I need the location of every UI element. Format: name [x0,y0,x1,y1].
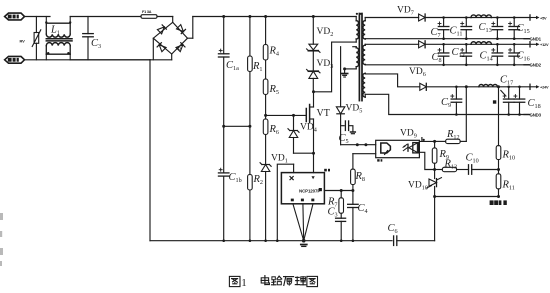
svg-text:VD9: VD9 [400,129,417,140]
svg-text:C4: C4 [358,203,368,215]
svg-text:VD4: VD4 [300,123,317,134]
svg-text:C8: C8 [432,52,442,64]
svg-text:VD10: VD10 [408,181,428,192]
svg-text:GND1: GND1 [530,37,542,42]
svg-text:R5: R5 [269,84,280,96]
svg-text:VD2: VD2 [317,27,334,38]
svg-text:C6: C6 [388,223,398,235]
svg-text:1: 1 [241,277,247,289]
svg-text:VD6: VD6 [409,67,426,78]
svg-text:VD: VD [176,47,181,51]
svg-text:C9: C9 [441,97,451,109]
svg-text:R11: R11 [502,180,515,192]
svg-text:R13: R13 [444,159,458,171]
svg-text:L1: L1 [50,25,60,37]
svg-text:C5: C5 [339,133,349,145]
svg-text:+12V: +12V [540,42,549,47]
svg-text:C1b: C1b [229,172,242,184]
svg-text:C18: C18 [528,98,541,110]
svg-text:R4: R4 [269,46,280,58]
svg-text:RV: RV [20,39,26,44]
svg-text:VD3: VD3 [317,59,334,70]
svg-text:F1 3A: F1 3A [142,10,152,14]
svg-text:C17: C17 [500,75,513,87]
svg-text:C15: C15 [517,23,530,35]
svg-text:C3: C3 [91,38,101,50]
svg-text:C10: C10 [466,153,479,165]
svg-text:C11: C11 [450,26,463,38]
svg-text:C16: C16 [517,51,530,63]
svg-text:R12: R12 [446,129,460,141]
svg-text:C14: C14 [480,51,493,63]
svg-text:VD5: VD5 [346,104,363,115]
svg-text:VT: VT [317,108,330,119]
svg-text:R10: R10 [502,150,516,162]
svg-text:R2: R2 [253,174,264,186]
svg-text:GND2: GND2 [530,63,542,68]
svg-text:C1a: C1a [226,60,239,72]
svg-text:C7: C7 [431,27,441,39]
svg-text:C12: C12 [452,47,465,59]
svg-text:+24V: +24V [540,85,549,90]
svg-text:R8: R8 [355,171,366,183]
svg-text:R1: R1 [252,61,263,73]
svg-text:+5V: +5V [540,15,547,20]
svg-text:VD7: VD7 [397,5,414,16]
svg-text:VD1: VD1 [271,154,288,165]
svg-text:GND3: GND3 [530,112,542,117]
svg-text:R6: R6 [269,124,280,136]
svg-text:C13: C13 [479,22,492,34]
svg-text:NCP1207P: NCP1207P [299,189,320,194]
